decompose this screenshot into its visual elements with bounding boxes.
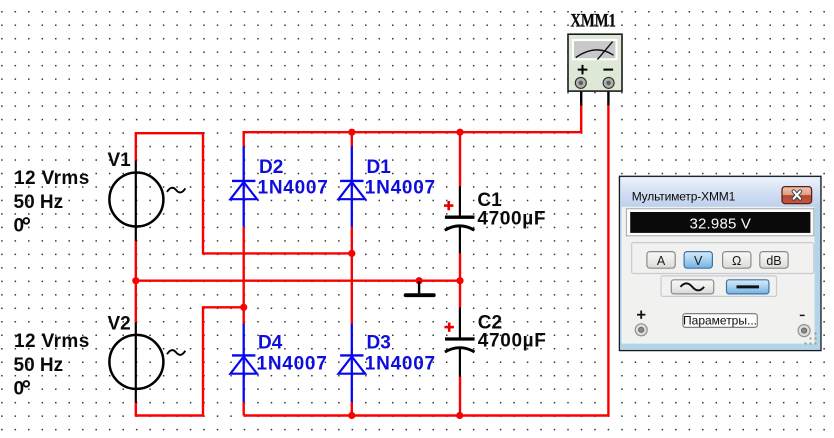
- wire: C2 bottom red lead: [459, 377, 461, 416]
- panel - terminal label: [800, 314, 805, 316]
- panel signal group box: [661, 276, 777, 297]
- junction bottom bus / D3: [348, 412, 355, 419]
- svg-text:V2: V2: [108, 314, 131, 335]
- svg-text:12 Vrms: 12 Vrms: [14, 331, 90, 352]
- svg-text:1N4007: 1N4007: [365, 178, 436, 199]
- junction V2- at D2/D4 column: [240, 304, 247, 311]
- XMM1 plus mark: [578, 65, 588, 75]
- junction at C1/C2 midpoint: [456, 277, 463, 284]
- panel button Ohm: [723, 252, 751, 269]
- wire: D1 bottom to D3 top: [351, 227, 353, 324]
- panel button A: [647, 252, 675, 269]
- svg-text:A: A: [657, 254, 666, 268]
- svg-text:1N4007: 1N4007: [365, 353, 436, 374]
- svg-text:Параметры...: Параметры...: [683, 314, 757, 328]
- svg-text:50 Hz: 50 Hz: [14, 355, 64, 376]
- XMM1 meter needle: [597, 42, 612, 60]
- svg-text:Мультиметр-XMM1: Мультиметр-XMM1: [632, 189, 736, 203]
- XMM1 meter display: [572, 39, 618, 60]
- svg-text:V1: V1: [108, 150, 132, 171]
- junction at top bus / D1: [348, 129, 355, 136]
- wire: V2 negative down, across and up to D2/D4 midpoint: [136, 307, 244, 415]
- capacitor C1: [445, 186, 475, 253]
- wire: V1 positive lead up, across and down to node at D1/D3 junction: [136, 133, 352, 253]
- panel close button: [782, 187, 812, 204]
- wire: V1 negative to V2 positive column: [135, 241, 137, 322]
- svg-text:Ω: Ω: [732, 254, 741, 268]
- panel + terminal label: [637, 311, 645, 319]
- wire: XMM1 + black lead stub: [580, 86, 582, 105]
- panel button V (selected): [684, 252, 712, 269]
- panel frame: [619, 176, 821, 350]
- wire: D4 bottom lead: [242, 402, 244, 415]
- panel AC button: [671, 280, 713, 294]
- svg-text:dB: dB: [766, 254, 781, 268]
- svg-text:50 Hz: 50 Hz: [14, 192, 64, 213]
- junction center tap at V1/V2 column: [132, 277, 139, 284]
- panel - terminal jack: [798, 325, 810, 337]
- svg-text:D1: D1: [367, 157, 392, 178]
- svg-text:1N4007: 1N4007: [257, 353, 328, 374]
- panel button dB: [760, 252, 788, 269]
- svg-text:V: V: [694, 254, 703, 268]
- svg-text:0: 0: [14, 378, 25, 399]
- wire: C1 top lead red: [459, 132, 461, 186]
- polarity + of C1: [444, 201, 453, 210]
- XMM1 body: [568, 34, 622, 91]
- wire: D1 top lead: [351, 132, 353, 146]
- panel mode group box: [632, 243, 814, 274]
- panel resize grip: [805, 333, 817, 345]
- panel title bar: [621, 177, 820, 206]
- AC source V2: [109, 322, 185, 402]
- panel display bevel: [626, 209, 813, 236]
- junction at top bus / C1: [456, 129, 463, 136]
- polarity + of C2: [445, 323, 454, 332]
- panel DC button (selected): [727, 280, 769, 294]
- diode D1: [339, 146, 366, 226]
- wire: C1 bottom to C2 top red: [459, 253, 461, 307]
- XMM1 meter scale arc: [576, 50, 614, 58]
- svg-text:D4: D4: [258, 332, 283, 353]
- wire: center tap to ground and C1/C2 midpoint: [136, 280, 460, 282]
- wire: bottom bus to multimeter - lead: [244, 105, 609, 416]
- multimeter XMM1 icon: [568, 34, 622, 105]
- wire: top bus from D2 top across D1, C1 to multimeter + lead: [244, 105, 582, 147]
- diode D3: [339, 324, 366, 403]
- XMM1 minus mark: [603, 69, 613, 71]
- wire: D2 bottom to D4 top: [242, 227, 244, 324]
- svg-text:12 Vrms: 12 Vrms: [14, 168, 90, 189]
- multimeter panel window: [619, 176, 821, 350]
- svg-text:1N4007: 1N4007: [258, 178, 329, 199]
- XMM1 terminal -: [603, 77, 614, 88]
- svg-text:4700µF: 4700µF: [477, 209, 546, 230]
- diode D4: [230, 324, 257, 403]
- XMM1 terminal +: [575, 77, 586, 88]
- svg-text:D2: D2: [259, 157, 283, 178]
- capacitor C2: [445, 308, 475, 377]
- panel Parameters button: [683, 314, 757, 328]
- diode D2: [230, 146, 257, 226]
- panel + terminal jack: [635, 324, 647, 336]
- svg-text:XMM1: XMM1: [570, 10, 616, 31]
- AC source V1: [109, 161, 185, 241]
- svg-text:D3: D3: [367, 332, 391, 353]
- junction V1+ at D1/D3 column: [348, 250, 355, 257]
- ground: [406, 281, 434, 295]
- wire: XMM1 - black lead stub: [607, 86, 609, 105]
- panel display black screen: [630, 212, 810, 233]
- svg-text:0: 0: [14, 215, 25, 236]
- svg-text:4700µF: 4700µF: [478, 330, 547, 351]
- svg-text:32.985 V: 32.985 V: [689, 216, 751, 233]
- wire: D3 bottom lead: [351, 402, 353, 415]
- junction bottom bus / C2: [456, 412, 463, 419]
- panel content area: [622, 207, 815, 344]
- junction at ground tap: [416, 277, 423, 284]
